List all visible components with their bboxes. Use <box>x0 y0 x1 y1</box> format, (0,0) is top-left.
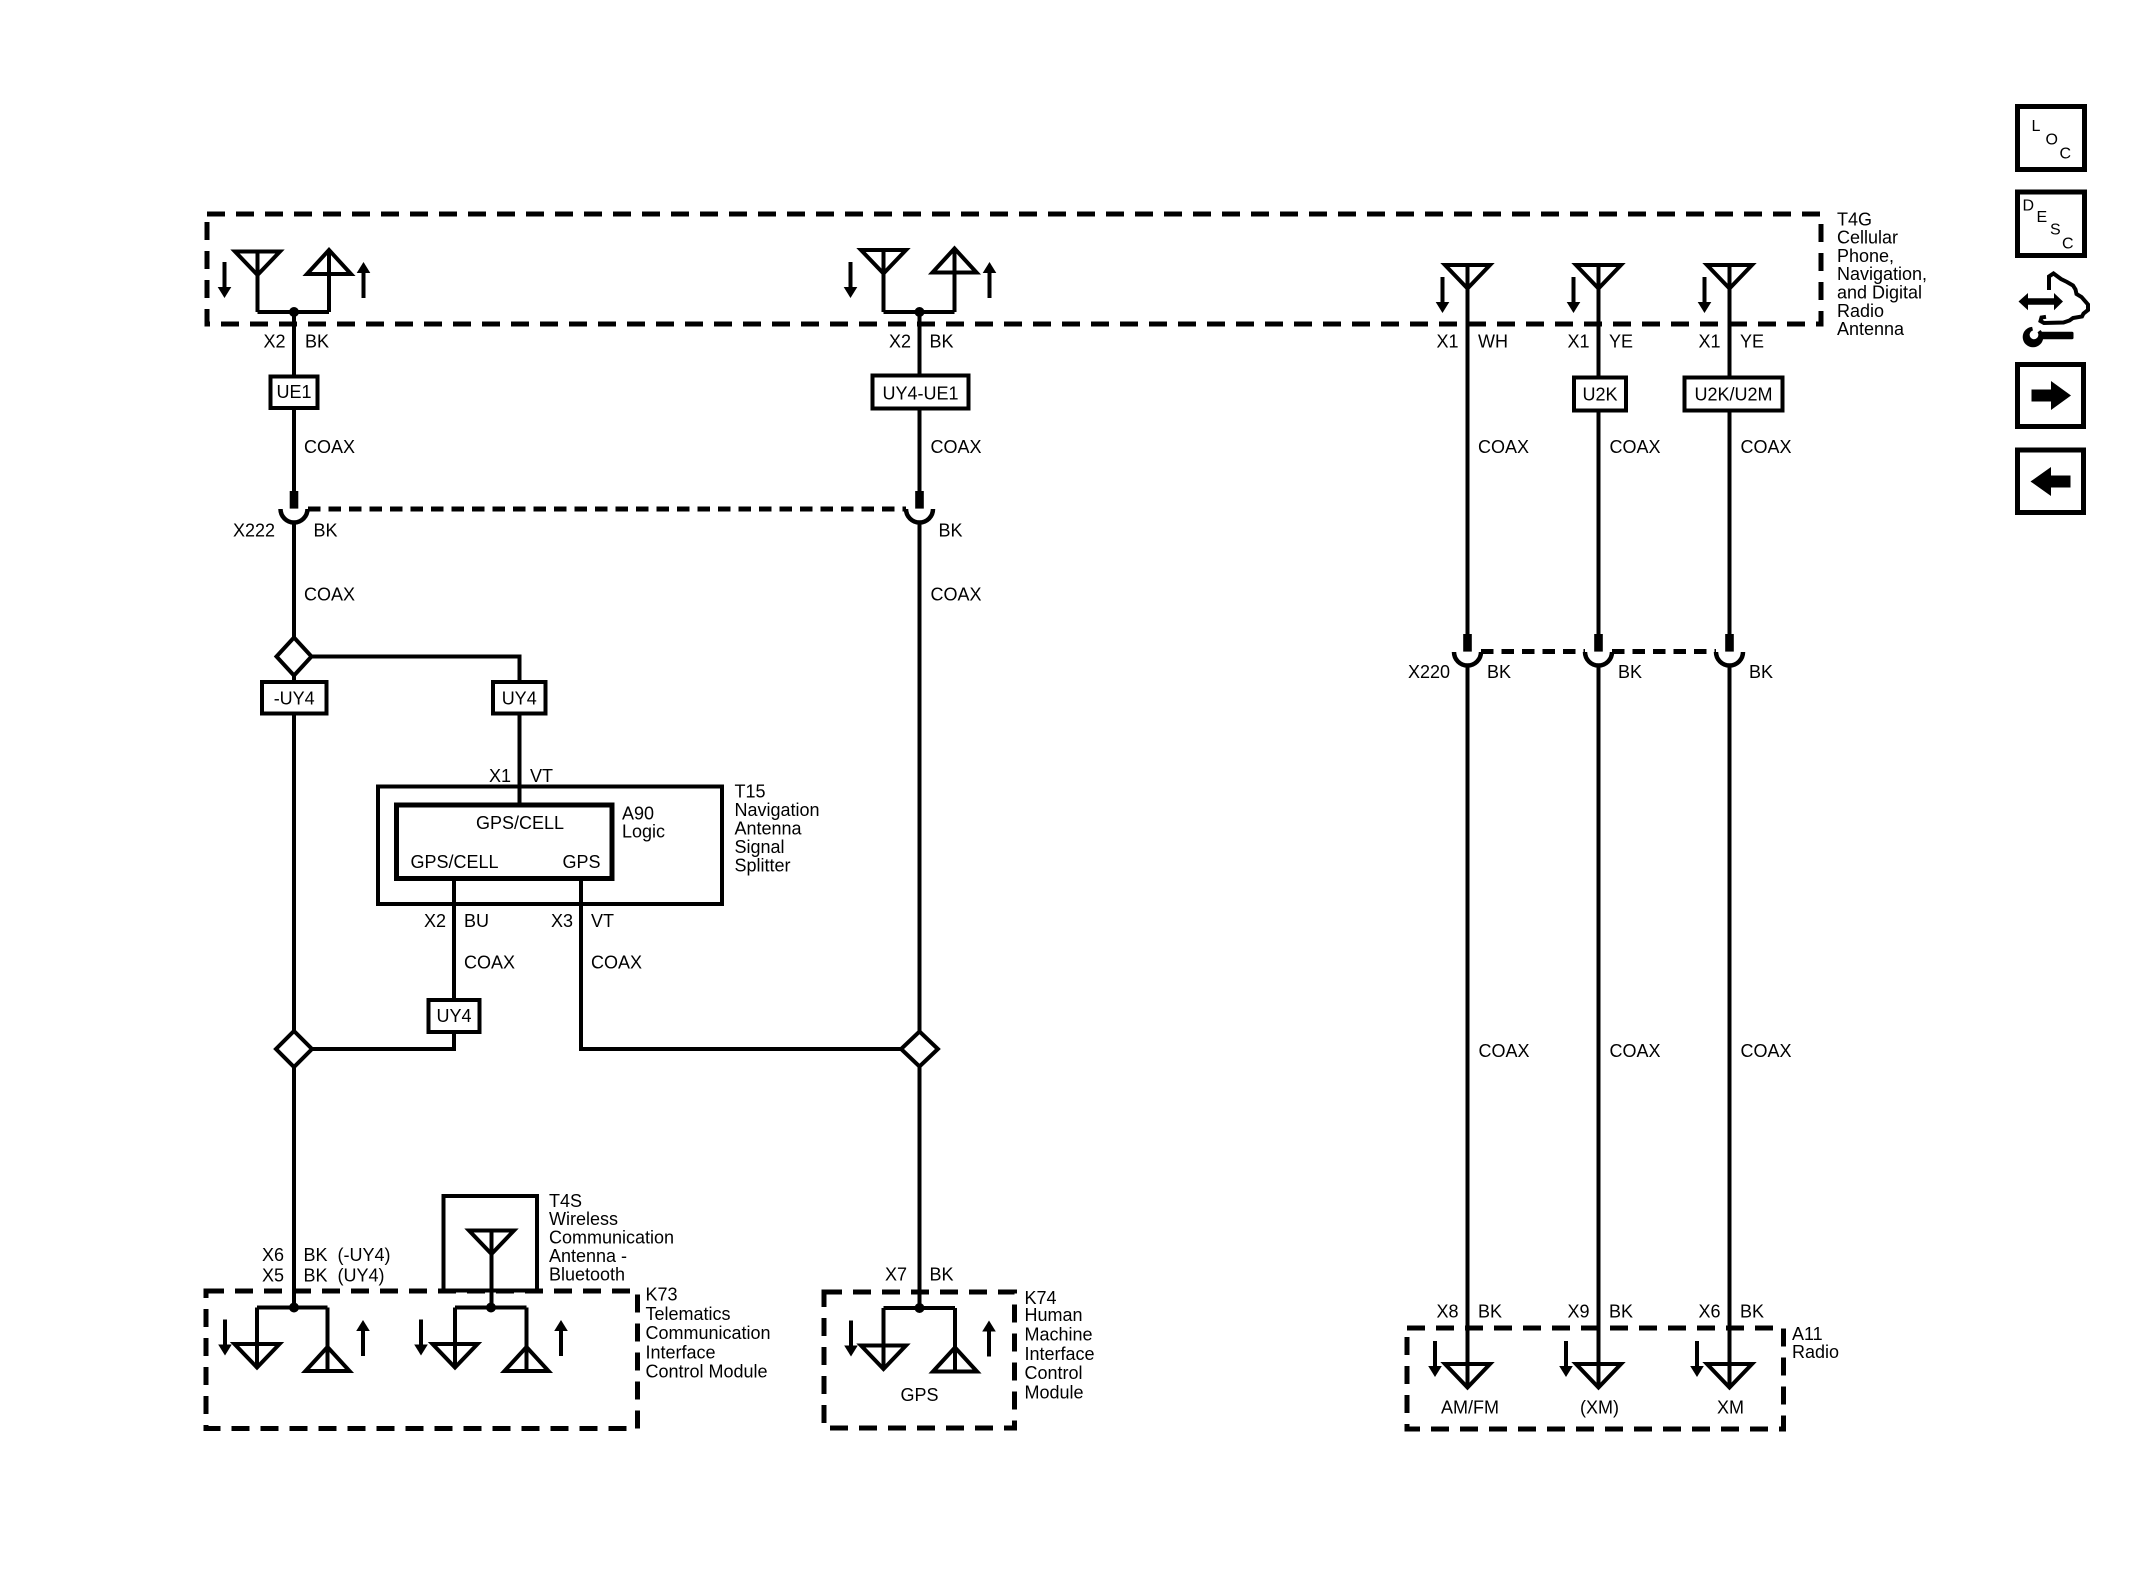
svg-text:X3: X3 <box>551 911 573 931</box>
svg-text:BK (UY4): BK (UY4) <box>304 1266 385 1286</box>
svg-text:GPS/CELL: GPS/CELL <box>410 852 498 872</box>
dotted connector tie line X220 left <box>1481 649 1585 654</box>
svg-text:BK (-UY4): BK (-UY4) <box>304 1245 391 1265</box>
svg-text:X8: X8 <box>1436 1302 1458 1322</box>
svg-text:Splitter: Splitter <box>735 856 791 876</box>
svg-text:X7: X7 <box>885 1265 907 1285</box>
wire X220 col E down to radio <box>1728 666 1732 1389</box>
sidebar diagnostic icon wrench <box>2023 324 2074 347</box>
dotted connector tie line X222 <box>308 507 906 512</box>
receive direction arrow <box>1698 277 1712 313</box>
svg-text:BK: BK <box>1749 662 1773 682</box>
wire antenna tie bar <box>884 1306 956 1310</box>
svg-text:X5: X5 <box>262 1266 284 1286</box>
svg-text:COAX: COAX <box>1741 437 1792 457</box>
svg-text:Logic: Logic <box>622 822 665 842</box>
svg-text:BK: BK <box>939 521 963 541</box>
option merge diamond 2 <box>901 1032 938 1067</box>
option box UE1 <box>271 377 318 409</box>
wire antenna tie bar <box>257 1306 328 1310</box>
svg-text:BK: BK <box>1478 1302 1502 1322</box>
in-line connector X220 col E <box>1716 634 1743 666</box>
in-line connector X220 col C <box>1454 634 1481 666</box>
svg-text:YE: YE <box>1740 332 1764 352</box>
wire U2K/U2M to X220 <box>1728 411 1732 635</box>
option box UY4 second <box>429 1000 480 1032</box>
wire antenna tie bar <box>258 310 330 314</box>
option split diamond 1 <box>277 638 312 676</box>
svg-text:D: D <box>2023 198 2035 215</box>
wire UY4-UE1 to X222 col B <box>918 409 922 492</box>
svg-text:T4S: T4S <box>549 1191 582 1211</box>
svg-text:COAX: COAX <box>1479 1041 1530 1061</box>
receive antenna symbol <box>255 1308 259 1369</box>
receive direction arrow <box>1436 277 1450 313</box>
svg-text:Navigation,: Navigation, <box>1837 264 1927 284</box>
receive direction arrow <box>1690 1341 1704 1377</box>
wire U2K to X220 <box>1597 411 1601 635</box>
receive antenna symbol, XM 2 column <box>1707 265 1752 289</box>
svg-text:COAX: COAX <box>1610 1041 1661 1061</box>
sidebar diagnostic icon double arrow <box>2019 293 2064 310</box>
transmit antenna symbol <box>525 1308 529 1372</box>
svg-text:A90: A90 <box>622 804 654 824</box>
wire antenna tie bar <box>884 310 955 314</box>
svg-text:X220: X220 <box>1408 662 1450 682</box>
receive antenna symbol, XM 1 column <box>1576 265 1621 289</box>
receive direction arrow <box>1559 1341 1573 1377</box>
svg-text:COAX: COAX <box>304 437 355 457</box>
receive direction arrow <box>218 1320 232 1356</box>
svg-text:X9: X9 <box>1567 1302 1589 1322</box>
A11 receive antenna symbol (XM) <box>1576 1364 1621 1388</box>
splitter T15 outer box <box>378 787 722 905</box>
svg-text:WH: WH <box>1478 332 1508 352</box>
svg-text:-UY4: -UY4 <box>274 689 315 709</box>
svg-text:X1: X1 <box>489 766 511 786</box>
wire col E antenna to U2K/U2M <box>1728 265 1732 378</box>
receive antenna symbol <box>882 1308 886 1369</box>
wire col C antenna down to X220 <box>1466 265 1470 634</box>
transmit antenna symbol <box>307 250 351 274</box>
svg-text:X2: X2 <box>263 332 285 352</box>
in-line connector X222 col B <box>906 491 933 523</box>
receive direction arrow <box>414 1320 428 1356</box>
svg-text:XM: XM <box>1717 1398 1744 1418</box>
svg-text:Phone,: Phone, <box>1837 246 1894 266</box>
junction dot <box>289 1303 299 1313</box>
junction dot <box>915 307 925 317</box>
transmit direction arrow <box>982 1321 996 1357</box>
svg-text:YE: YE <box>1609 332 1633 352</box>
svg-text:Antenna -: Antenna - <box>549 1246 627 1266</box>
svg-text:Telematics: Telematics <box>646 1304 731 1324</box>
svg-text:BK: BK <box>930 1265 954 1285</box>
transmit antenna symbol <box>326 1308 330 1372</box>
transmit antenna symbol <box>933 249 977 273</box>
svg-text:Antenna: Antenna <box>1837 319 1905 339</box>
sidebar DESC button box <box>2018 192 2085 256</box>
svg-text:COAX: COAX <box>931 585 982 605</box>
T4G Cellular/Navigation/Digital Radio Antenna module dashed box <box>207 214 1821 324</box>
svg-text:UY4: UY4 <box>436 1006 471 1026</box>
svg-text:COAX: COAX <box>464 953 515 973</box>
T4S Wireless Communication Antenna Bluetooth box <box>444 1196 538 1291</box>
svg-text:GPS/CELL: GPS/CELL <box>476 813 564 833</box>
transmit direction arrow <box>983 262 997 298</box>
svg-text:Cellular: Cellular <box>1837 228 1898 248</box>
svg-text:COAX: COAX <box>591 953 642 973</box>
svg-text:BK: BK <box>1618 662 1642 682</box>
svg-text:AM/FM: AM/FM <box>1441 1398 1499 1418</box>
option merge diamond 1b <box>276 1031 312 1067</box>
svg-text:GPS: GPS <box>562 852 600 872</box>
svg-text:T4G: T4G <box>1837 209 1872 229</box>
K73 Telematics module dashed box <box>206 1291 638 1429</box>
svg-text:BK: BK <box>1487 662 1511 682</box>
wire X220 col C down to radio <box>1466 666 1470 1389</box>
svg-text:Antenna: Antenna <box>735 819 803 839</box>
option box -UY4 <box>262 682 327 714</box>
svg-text:COAX: COAX <box>304 585 355 605</box>
svg-text:Interface: Interface <box>1025 1344 1095 1364</box>
svg-text:X222: X222 <box>233 521 275 541</box>
svg-text:X2: X2 <box>889 332 911 352</box>
sidebar diagnostic icon connector outline <box>2041 274 2089 324</box>
option box UY4-UE1 <box>873 376 969 409</box>
dotted connector tie line X220 right <box>1612 649 1716 654</box>
svg-text:Control: Control <box>1025 1363 1083 1383</box>
K74 Human Machine Interface module dashed box <box>824 1292 1015 1428</box>
wire col A antenna to UE1 <box>292 312 296 377</box>
receive direction arrow <box>218 262 232 298</box>
option box U2K/U2M <box>1685 378 1783 411</box>
receive direction arrow <box>844 262 858 298</box>
svg-text:COAX: COAX <box>931 437 982 457</box>
svg-text:Communication: Communication <box>549 1228 674 1248</box>
wire diamond to UY4 branch <box>312 657 520 683</box>
svg-text:Module: Module <box>1025 1382 1084 1402</box>
svg-text:BU: BU <box>464 911 489 931</box>
svg-text:X2: X2 <box>424 911 446 931</box>
svg-text:and Digital: and Digital <box>1837 283 1922 303</box>
receive antenna symbol, AM/FM column <box>1445 265 1490 289</box>
wire X222 col B to diamond 2 <box>918 523 922 1033</box>
receive direction arrow <box>1428 1341 1442 1377</box>
T4S receive antenna symbol <box>469 1231 514 1255</box>
svg-text:BK: BK <box>930 332 954 352</box>
svg-text:Control Module: Control Module <box>646 1362 768 1382</box>
receive direction arrow <box>844 1321 858 1357</box>
wire col D antenna to U2K <box>1597 265 1601 378</box>
svg-text:X1: X1 <box>1436 332 1458 352</box>
svg-text:Navigation: Navigation <box>735 800 820 820</box>
svg-text:C: C <box>2062 236 2074 253</box>
svg-text:X1: X1 <box>1698 332 1720 352</box>
wire diamond to -UY4 <box>292 676 296 683</box>
svg-text:BK: BK <box>314 521 338 541</box>
svg-text:Wireless: Wireless <box>549 1209 618 1229</box>
wire -UY4 down to diamond 1b <box>292 714 296 1032</box>
svg-text:GPS: GPS <box>900 1385 938 1405</box>
wire UY4 second to diamond 1b <box>312 1032 454 1049</box>
svg-text:BK: BK <box>1609 1302 1633 1322</box>
svg-text:C: C <box>2060 146 2072 163</box>
wire T4S antenna to K73 junction <box>490 1231 494 1308</box>
svg-text:UE1: UE1 <box>276 382 311 402</box>
A11 receive antenna symbol AM/FM <box>1445 1364 1490 1388</box>
svg-text:COAX: COAX <box>1610 437 1661 457</box>
svg-text:S: S <box>2050 222 2061 239</box>
wire splitter X3 output <box>581 879 901 1050</box>
junction dot <box>486 1303 496 1313</box>
svg-text:COAX: COAX <box>1741 1041 1792 1061</box>
transmit direction arrow <box>357 262 371 298</box>
sidebar next arrow button <box>2018 365 2084 427</box>
svg-text:Signal: Signal <box>735 837 785 857</box>
svg-text:Human: Human <box>1025 1305 1083 1325</box>
svg-text:E: E <box>2037 209 2048 226</box>
receive direction arrow <box>1567 277 1581 313</box>
svg-text:T15: T15 <box>735 782 766 802</box>
svg-text:X1: X1 <box>1567 332 1589 352</box>
transmit antenna symbol <box>953 1308 957 1372</box>
svg-text:K73: K73 <box>646 1285 678 1305</box>
svg-text:O: O <box>2046 132 2058 149</box>
svg-text:L: L <box>2032 118 2041 135</box>
svg-text:UY4: UY4 <box>502 689 537 709</box>
svg-text:X6: X6 <box>1698 1302 1720 1322</box>
wire X220 col D down to radio <box>1597 666 1601 1389</box>
svg-text:Radio: Radio <box>1792 1342 1839 1362</box>
receive antenna symbol <box>235 252 280 276</box>
wire UE1 to X222 <box>292 409 296 492</box>
sidebar LOC button box <box>2018 107 2085 170</box>
svg-text:VT: VT <box>530 766 553 786</box>
svg-text:Machine: Machine <box>1025 1325 1093 1345</box>
wire diamond 2 down to K74 <box>918 1067 922 1309</box>
svg-text:(XM): (XM) <box>1580 1398 1619 1418</box>
svg-text:COAX: COAX <box>1478 437 1529 457</box>
svg-text:Interface: Interface <box>646 1342 716 1362</box>
transmit direction arrow <box>356 1320 370 1356</box>
wire splitter X2 output <box>452 879 456 1001</box>
svg-text:UY4-UE1: UY4-UE1 <box>882 384 958 404</box>
svg-text:BK: BK <box>1740 1302 1764 1322</box>
sidebar back arrow button <box>2018 450 2084 513</box>
A11 Radio module dashed box <box>1407 1328 1784 1429</box>
wire col B antenna to UY4-UE1 <box>918 312 922 376</box>
option box U2K <box>1574 378 1626 411</box>
transmit direction arrow <box>554 1320 568 1356</box>
svg-text:U2K: U2K <box>1582 385 1617 405</box>
A11 receive antenna symbol XM <box>1707 1364 1752 1388</box>
junction dot <box>289 307 299 317</box>
receive antenna symbol <box>861 250 906 274</box>
in-line connector X222 col A <box>281 491 308 523</box>
svg-text:Communication: Communication <box>646 1323 771 1343</box>
wire X222 to diamond <box>292 523 296 639</box>
svg-text:Bluetooth: Bluetooth <box>549 1264 625 1284</box>
svg-text:Radio: Radio <box>1837 301 1884 321</box>
svg-text:VT: VT <box>591 911 614 931</box>
in-line connector X220 col D <box>1585 634 1612 666</box>
svg-text:BK: BK <box>305 332 329 352</box>
wire UY4 to splitter X1 <box>518 714 522 806</box>
svg-text:X6: X6 <box>262 1245 284 1265</box>
splitter A90 logic inner box <box>397 805 613 879</box>
junction dot <box>915 1303 925 1313</box>
wire diamond 1b down to K73 <box>292 1067 296 1308</box>
receive antenna symbol <box>453 1308 457 1369</box>
option box UY4 <box>493 682 546 714</box>
svg-text:U2K/U2M: U2K/U2M <box>1694 385 1772 405</box>
wire antenna tie bar <box>455 1306 527 1310</box>
